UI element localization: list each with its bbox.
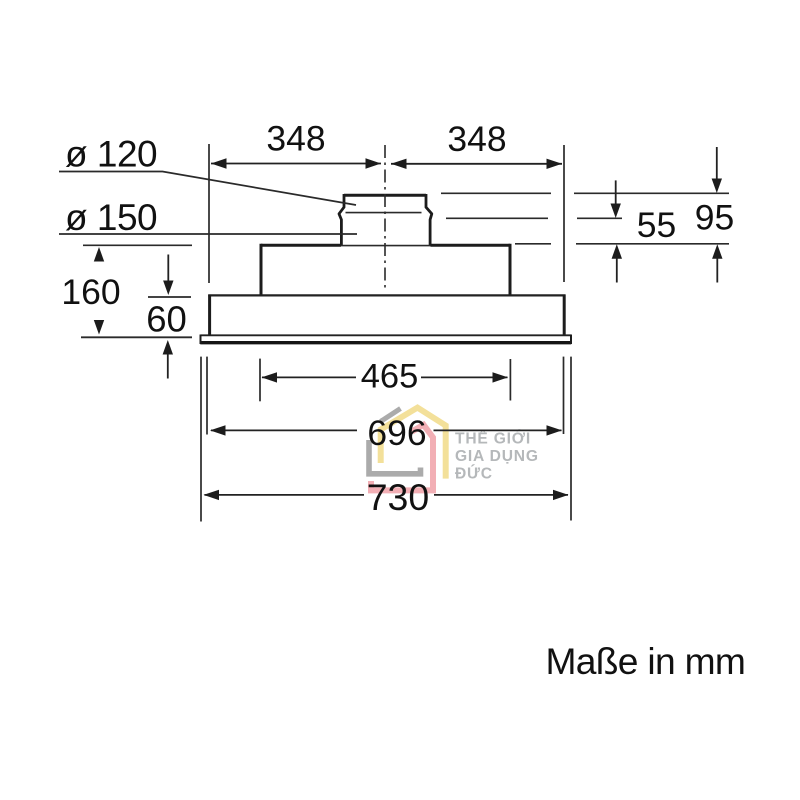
dimension 95: bottom arrow — [712, 244, 722, 258]
hood outline: collar right side with flare — [426, 194, 432, 246]
watermark logo: yellow house outline — [381, 408, 446, 479]
hood outline: collar joint line (thin) — [346, 212, 422, 214]
hood outline: main body side walls — [210, 295, 565, 337]
watermark logo: gray house roof segment — [381, 409, 401, 422]
svg-text:ø 120: ø 120 — [65, 134, 157, 175]
right reference line at step-2 top level — [515, 243, 729, 245]
hood outline: collar left side with flare — [339, 194, 344, 246]
watermark logo: red house outline — [371, 425, 433, 491]
right reference line at neck top level — [446, 217, 622, 219]
dimension 730: line — [205, 494, 569, 496]
extension line left x=209 — [208, 144, 210, 283]
svg-text:60: 60 — [146, 299, 187, 340]
hood outline: step-2 top edge — [261, 244, 510, 247]
dimension 160/60: bottom reference line — [81, 336, 192, 338]
hood outline: step-2 top edge behind duct (thin) — [341, 245, 431, 247]
dimension 60: top arrow — [167, 255, 169, 282]
svg-text:GIA DỤNG: GIA DỤNG — [455, 448, 539, 465]
svg-text:696: 696 — [367, 413, 426, 453]
dimension 730: arrowheads — [204, 490, 220, 500]
extension line right x=564 — [563, 145, 565, 282]
dimension 465: line — [262, 376, 508, 378]
dimension 348 left: arrowheads — [211, 158, 227, 168]
svg-text:348: 348 — [447, 119, 506, 159]
right reference line at collar top level — [441, 192, 729, 194]
watermark logo text THE GIOI GIA DUNG DUC — [455, 429, 539, 483]
svg-text:ĐỨC: ĐỨC — [455, 464, 493, 483]
svg-text:160: 160 — [61, 272, 120, 312]
dimension 696: arrowheads — [210, 425, 226, 435]
svg-text:Maße in mm: Maße in mm — [546, 640, 746, 682]
dimension 465: arrowheads — [262, 372, 278, 382]
centerline (dash-dot) — [384, 145, 386, 289]
dimension 55: bottom arrow — [612, 244, 622, 259]
hood outline: duct collar o120 top edge — [344, 194, 426, 197]
dimension 160: top reference line — [83, 244, 192, 246]
hood outline: bottom flange — [201, 334, 571, 336]
bottom extension lines — [206, 357, 208, 435]
svg-text:730: 730 — [367, 476, 430, 518]
svg-text:ø 150: ø 150 — [65, 197, 157, 238]
dimension 348 right: arrowheads — [391, 159, 407, 169]
svg-text:465: 465 — [361, 358, 419, 396]
svg-text:348: 348 — [266, 119, 325, 159]
dimension 95: top arrow — [716, 147, 718, 179]
dimension 60: top reference line (body top extended) — [148, 296, 191, 298]
dimension 160: arrowheads — [94, 247, 104, 262]
watermark logo: gray L base — [369, 440, 421, 474]
svg-text:THẾ GIỚI: THẾ GIỚI — [455, 429, 531, 448]
svg-text:95: 95 — [695, 198, 735, 238]
hood outline: step-2 side walls — [261, 244, 510, 296]
svg-text:55: 55 — [637, 205, 677, 245]
dimension 55: top arrow — [615, 180, 617, 204]
dimension 348 right: line — [391, 163, 562, 165]
dimension 348 left: line — [211, 163, 381, 165]
dimension 60: bottom arrow — [163, 340, 173, 355]
hood outline: main body top edge — [208, 294, 565, 296]
dimension 696: line — [211, 429, 562, 431]
